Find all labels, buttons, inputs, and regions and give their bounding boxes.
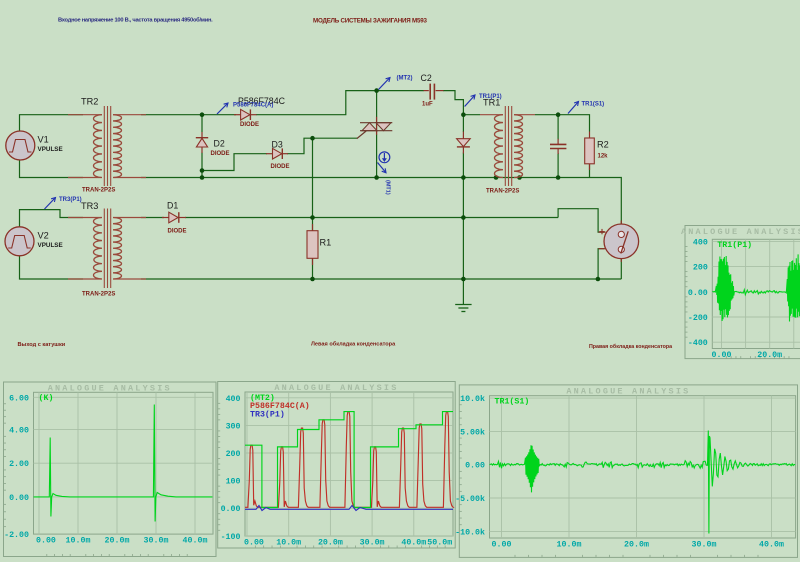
transformer TR2: [68, 114, 102, 116]
current probe (MT1): [379, 152, 390, 163]
graph panel D: plot area and grid: [712, 239, 800, 348]
svg-text:30.0m: 30.0m: [360, 538, 385, 547]
wire D2 branch bottom: [201, 153, 203, 178]
graph panel A: plot area and grid: [34, 392, 214, 534]
wire zener to ground symbol: [462, 153, 464, 305]
svg-text:5.00k: 5.00k: [460, 427, 485, 437]
resistor R2: [589, 132, 591, 139]
wire capacitor C3 bottom: [557, 153, 559, 178]
graph panel A: border ticks: [4, 403, 7, 405]
wire TR3 secondary top to D1: [141, 217, 164, 219]
graph panel C: border ticks: [459, 404, 462, 406]
graph panel C: frame: [459, 385, 797, 558]
svg-text:R1: R1: [320, 238, 332, 248]
svg-text:TR3(P1): TR3(P1): [59, 197, 82, 203]
svg-text:(MT1): (MT1): [385, 180, 391, 195]
capacitor C2: [424, 90, 429, 92]
svg-text:Выход с катушки: Выход с катушки: [18, 342, 66, 348]
svg-text:10.0m: 10.0m: [66, 536, 91, 545]
wire TR2 secondary bottom rail: [141, 177, 591, 179]
wire ground rail to distributor bottom: [620, 259, 622, 279]
svg-text:0.00: 0.00: [465, 462, 485, 471]
svg-text:50.0m: 50.0m: [427, 538, 452, 547]
wire C2 right to TR1 primary top: [443, 91, 480, 115]
svg-text:40.0m: 40.0m: [401, 538, 426, 547]
wire node A to diode D4 then jog up: [256, 91, 424, 115]
svg-text:20.0m: 20.0m: [105, 536, 130, 545]
svg-text:1uF: 1uF: [422, 102, 433, 108]
graph panel B: plot area and grid: [245, 392, 453, 536]
svg-text:TR1(S1): TR1(S1): [495, 397, 530, 407]
svg-text:Правая обкладка конденсатора: Правая обкладка конденсатора: [589, 343, 672, 350]
svg-text:TR3(P1): TR3(P1): [250, 410, 285, 420]
graph panel D: frame: [685, 226, 800, 359]
wire TR1 secondary top to R2: [535, 115, 590, 132]
svg-text:0.00: 0.00: [492, 540, 512, 549]
svg-text:TRAN-2P2S: TRAN-2P2S: [82, 188, 115, 194]
trace D green TR1(P1): [712, 254, 800, 321]
svg-text:(K): (K): [39, 393, 54, 403]
svg-text:2.00: 2.00: [9, 460, 29, 469]
probe P586F784C(A): [217, 103, 228, 114]
graph panel B: frame: [218, 382, 456, 549]
source V2: [5, 227, 34, 256]
svg-text:TR1(P1): TR1(P1): [479, 94, 502, 100]
diode D4 P586F784C: [234, 114, 241, 116]
svg-text:20.0m: 20.0m: [318, 538, 343, 547]
svg-text:TR1(S1): TR1(S1): [582, 102, 605, 108]
triac U1: [376, 117, 378, 135]
svg-text:DIODE: DIODE: [168, 229, 187, 235]
diode D2: [201, 132, 203, 153]
svg-text:200: 200: [226, 450, 241, 459]
svg-text:12k: 12k: [598, 154, 609, 160]
svg-text:V1: V1: [38, 135, 49, 145]
graph panel D: border ticks: [685, 245, 688, 247]
graph panel B: border ticks: [218, 402, 221, 404]
wire TR2 secondary top to node A: [141, 114, 236, 116]
svg-text:0.00: 0.00: [688, 289, 708, 298]
svg-text:D3: D3: [272, 140, 283, 150]
wire R2 bottom to mid rail: [589, 164, 591, 178]
wire gate rail jog to distributor upper contact: [558, 209, 604, 232]
svg-text:10.0k: 10.0k: [460, 394, 485, 404]
svg-text:D2: D2: [214, 139, 225, 149]
svg-text:40.0m: 40.0m: [759, 540, 784, 549]
wire V2 loop top: [20, 210, 84, 227]
probe TR1(P1): [465, 95, 475, 107]
svg-text:-2.00: -2.00: [4, 531, 29, 540]
trace B blue TR3(P1): [245, 506, 453, 511]
trace B green (MT2) staircase: [245, 412, 453, 508]
wire distributor lower-left contact to ground rail: [598, 249, 604, 279]
svg-text:300: 300: [226, 422, 241, 431]
svg-text:-5.00k: -5.00k: [455, 494, 485, 504]
wire zener branch: [462, 115, 464, 132]
svg-text:C2: C2: [421, 73, 432, 83]
diode D1: [162, 217, 169, 219]
svg-text:VPULSE: VPULSE: [38, 146, 63, 153]
svg-text:20.0m: 20.0m: [624, 540, 649, 549]
svg-text:400: 400: [226, 395, 241, 404]
svg-text:10.0m: 10.0m: [557, 540, 582, 549]
zener diode D5: [462, 132, 464, 139]
wire V1 loop bottom: [20, 160, 84, 178]
svg-text:Входное напряжение 100 В., час: Входное напряжение 100 В., частота враще…: [58, 16, 213, 23]
wire R1 bottom: [312, 259, 314, 280]
trace B red P586F784C(A) pulses: [245, 412, 453, 508]
svg-text:TRAN-2P2S: TRAN-2P2S: [82, 292, 115, 298]
svg-text:-200: -200: [688, 314, 708, 323]
transformer TR3: [68, 217, 102, 219]
spark gap SG1 (distributor): [620, 221, 622, 227]
svg-text:DIODE: DIODE: [211, 151, 230, 157]
svg-text:ANALOGUE ANALYSIS: ANALOGUE ANALYSIS: [566, 386, 690, 396]
svg-text:DIODE: DIODE: [271, 164, 290, 170]
wire D2 branch top: [201, 115, 203, 132]
svg-text:TR3: TR3: [81, 201, 98, 211]
svg-text:R2: R2: [597, 140, 609, 150]
diode D3: [266, 153, 273, 155]
graph panel C: plot area and grid: [490, 396, 796, 538]
trace A green (K) coil voltage: [34, 405, 213, 522]
svg-text:(MT2): (MT2): [397, 76, 413, 82]
svg-text:30.0m: 30.0m: [144, 536, 169, 545]
svg-text:МОДЕЛЬ СИСТЕМЫ ЗАЖИГАНИЯ М593: МОДЕЛЬ СИСТЕМЫ ЗАЖИГАНИЯ М593: [313, 18, 427, 25]
svg-text:0.00: 0.00: [244, 538, 264, 547]
svg-text:-10.0k: -10.0k: [455, 527, 485, 537]
svg-text:TR1(P1): TR1(P1): [717, 240, 752, 250]
wire D3 to gate node: [287, 138, 357, 154]
wire D2 to D3: [202, 154, 267, 171]
svg-text:6.00: 6.00: [9, 394, 29, 403]
wire V2 loop bottom: [20, 256, 84, 279]
svg-text:-400: -400: [688, 339, 708, 348]
wire mid rail to distributor top: [591, 178, 621, 225]
svg-text:TRAN-2P2S: TRAN-2P2S: [486, 189, 519, 195]
capacitor C3: [557, 139, 559, 144]
svg-text:20.0m: 20.0m: [757, 351, 782, 360]
svg-text:100: 100: [226, 478, 241, 487]
probe TR1(S1): [568, 102, 579, 114]
svg-text:30.0m: 30.0m: [692, 540, 717, 549]
svg-text:TR2: TR2: [81, 97, 98, 107]
source V1: [6, 131, 35, 160]
svg-text:-100: -100: [221, 533, 241, 542]
svg-text:P586F784C(A): P586F784C(A): [233, 103, 273, 109]
wire gate node to R1 to ground rail: [312, 138, 314, 230]
wire triac MT1 to mid rail: [376, 135, 378, 178]
wire ground rail: [141, 278, 621, 280]
svg-text:D1: D1: [167, 201, 178, 211]
svg-text:4.00: 4.00: [9, 427, 29, 436]
resistor R1: [312, 224, 314, 231]
svg-text:200: 200: [693, 264, 708, 273]
svg-text:0.00: 0.00: [221, 505, 241, 514]
svg-text:V2: V2: [38, 231, 49, 241]
junction dots: [200, 112, 205, 117]
svg-text:0.00: 0.00: [712, 351, 732, 360]
wire V1 loop top: [20, 115, 84, 132]
svg-text:DIODE: DIODE: [240, 122, 259, 128]
wire capacitor C3 top: [557, 115, 559, 140]
svg-text:ANALOGUE ANALYSIS: ANALOGUE ANALYSIS: [681, 227, 800, 237]
ground: [455, 304, 471, 306]
svg-text:400: 400: [693, 238, 708, 247]
transformer TR1: [480, 114, 503, 116]
probe TR3(P1): [45, 198, 56, 210]
trace C green TR1(S1): [490, 431, 796, 534]
wire D1 to gate rail: [185, 217, 558, 219]
svg-text:40.0m: 40.0m: [183, 536, 208, 545]
svg-text:0.00: 0.00: [36, 536, 56, 545]
graph panel A: frame: [4, 382, 217, 557]
svg-text:VPULSE: VPULSE: [38, 242, 63, 249]
wire triac MT2: [376, 91, 378, 117]
svg-text:10.0m: 10.0m: [276, 538, 301, 547]
svg-text:Левая обкладка конденсатора: Левая обкладка конденсатора: [311, 340, 396, 347]
probe (MT2): [379, 78, 391, 90]
svg-text:0.00: 0.00: [9, 494, 29, 503]
